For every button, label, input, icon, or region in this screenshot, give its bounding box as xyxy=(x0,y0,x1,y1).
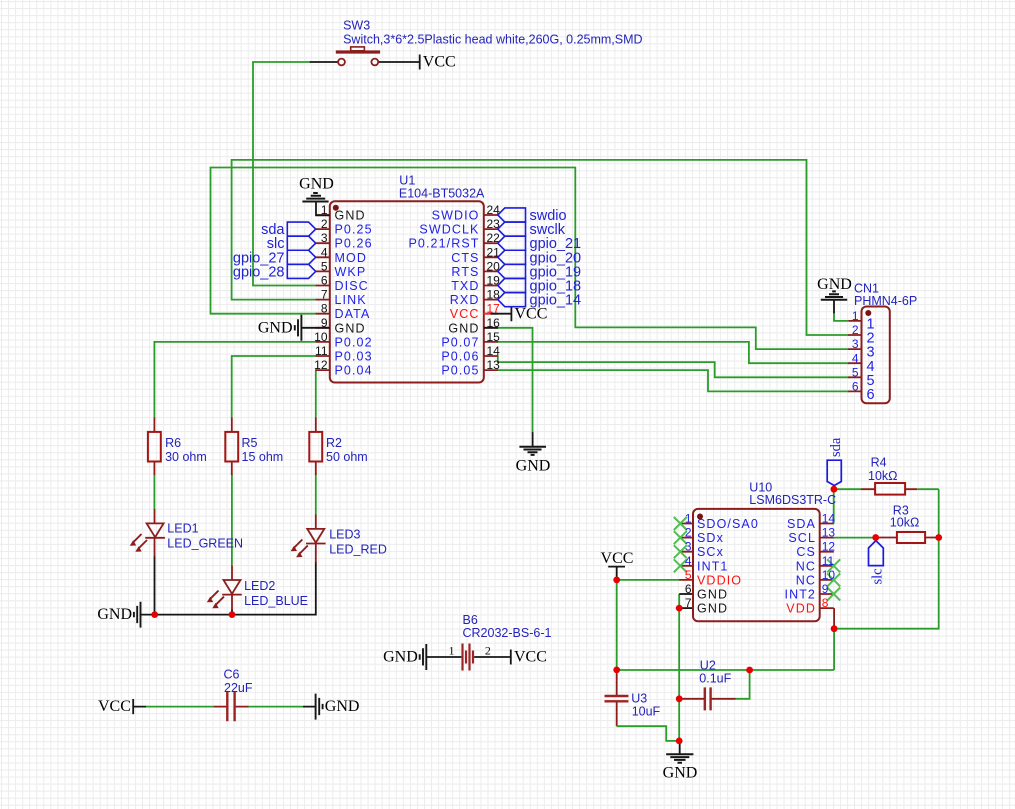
wire sda dot down to U10 pin14 SDA xyxy=(833,485,835,524)
svg-text:SDA: SDA xyxy=(787,517,816,531)
svg-text:3: 3 xyxy=(852,337,859,351)
svg-text:14: 14 xyxy=(487,344,501,358)
svg-text:6: 6 xyxy=(321,274,328,288)
svg-text:LED_GREEN: LED_GREEN xyxy=(167,537,243,551)
wire R6 to LED1 xyxy=(153,475,155,509)
svg-text:SCx: SCx xyxy=(697,545,724,559)
ground (earth) below U10 xyxy=(663,741,698,782)
svg-text:13: 13 xyxy=(487,358,501,372)
junction dot VDD xyxy=(831,625,838,632)
wire U3 top to VCC dot (dark red) xyxy=(616,670,618,696)
svg-text:SCL: SCL xyxy=(788,531,816,545)
svg-text:VCC: VCC xyxy=(601,550,634,567)
CN1 pin-1 marker dot xyxy=(865,310,871,316)
svg-text:R5: R5 xyxy=(242,436,258,450)
svg-text:VCC: VCC xyxy=(98,698,131,715)
svg-text:3: 3 xyxy=(321,231,328,245)
svg-text:P0.21/RST: P0.21/RST xyxy=(408,237,479,251)
svg-text:sda: sda xyxy=(828,437,844,457)
svg-text:GND: GND xyxy=(383,649,418,666)
svg-text:P0.02: P0.02 xyxy=(335,335,373,349)
IC U10 LSM6DS3TR-C body xyxy=(693,509,820,621)
svg-text:15 ohm: 15 ohm xyxy=(242,450,284,464)
svg-text:GND: GND xyxy=(448,321,479,335)
junction dot slc xyxy=(872,534,879,541)
svg-text:5: 5 xyxy=(321,259,328,273)
svg-text:2: 2 xyxy=(485,644,491,658)
svg-text:GND: GND xyxy=(97,606,132,623)
svg-text:11: 11 xyxy=(822,554,835,568)
svg-text:LSM6DS3TR-C: LSM6DS3TR-C xyxy=(749,493,836,507)
wire U2 right plate to VCC rail xyxy=(712,698,736,700)
svg-text:GND: GND xyxy=(817,276,852,293)
wire VDD dot right and up to R3/R4 xyxy=(834,489,939,629)
svg-text:LED1: LED1 xyxy=(167,522,198,536)
svg-text:VCC: VCC xyxy=(423,54,456,71)
svg-text:P0.06: P0.06 xyxy=(441,350,479,364)
wire U10 pin6 GND (black) xyxy=(679,593,693,595)
wire R2 to LED3 xyxy=(315,475,317,515)
svg-text:gpio_28: gpio_28 xyxy=(233,264,285,280)
svg-text:GND: GND xyxy=(258,319,293,336)
wire U1 pin15 P0.07 to CN1 pin4 xyxy=(498,342,848,363)
svg-text:gpio_14: gpio_14 xyxy=(530,293,582,309)
U10 left pin numbers xyxy=(685,512,692,611)
U10 no-connect X pin3 xyxy=(674,545,687,558)
svg-text:NC: NC xyxy=(796,559,816,573)
svg-text:WKP: WKP xyxy=(335,265,367,279)
U10 left pin names xyxy=(697,517,759,616)
ground (earth) below U1 (pin16 net) xyxy=(516,432,551,474)
U1 left pin numbers 1-12 xyxy=(314,203,328,372)
U10 pin-1 marker dot xyxy=(697,514,703,520)
wire U10 pin7 GND (black) xyxy=(679,607,693,609)
op-amp U1 E104-BT5032A body xyxy=(330,201,484,382)
net port sda (above R4) xyxy=(827,437,844,485)
svg-text:LINK: LINK xyxy=(335,293,367,307)
U1 left pin names xyxy=(335,209,373,378)
net labels right of U1 xyxy=(530,208,582,309)
svg-text:DISC: DISC xyxy=(335,279,369,293)
CN1 outside pin numbers xyxy=(852,309,859,394)
ground (power port) at B6 xyxy=(383,644,426,670)
U1 pin-1 marker dot xyxy=(333,205,339,211)
wire U1 pin12 P0.04 to R2 xyxy=(315,370,317,418)
resistor R6 xyxy=(148,418,207,475)
net port slc (below R3) xyxy=(869,541,886,585)
svg-text:1: 1 xyxy=(685,512,692,526)
junction dot VCC/pin5 xyxy=(613,577,620,584)
junction dot sda xyxy=(831,486,838,493)
svg-text:7: 7 xyxy=(321,288,328,302)
svg-text:2: 2 xyxy=(852,323,859,337)
svg-text:12: 12 xyxy=(314,358,328,372)
wire U1 pin10 P0.02 to R6 xyxy=(154,342,315,418)
ground (earth) at U1 pin1 xyxy=(299,176,334,216)
svg-text:8: 8 xyxy=(822,596,829,610)
capacitor U3 10uF xyxy=(605,692,661,719)
svg-text:6: 6 xyxy=(685,582,692,596)
svg-text:VCC: VCC xyxy=(450,307,480,321)
wire U1 pin8 DATA to CN1 pin3 xyxy=(211,168,849,350)
svg-text:LED2: LED2 xyxy=(244,579,275,593)
CN1 pin stubs xyxy=(848,321,861,392)
svg-text:LED3: LED3 xyxy=(329,528,360,542)
svg-text:8: 8 xyxy=(321,302,328,316)
U10 no-connect X pin1 xyxy=(674,517,687,530)
svg-text:12: 12 xyxy=(822,540,836,554)
svg-text:E104-BT5032A: E104-BT5032A xyxy=(399,187,485,201)
svg-text:CR2032-BS-6-1: CR2032-BS-6-1 xyxy=(463,626,552,640)
svg-text:INT1: INT1 xyxy=(697,559,729,573)
net flag gpio_27 (U1 pin4) xyxy=(287,250,315,264)
svg-text:SWDIO: SWDIO xyxy=(432,209,480,223)
svg-text:2: 2 xyxy=(321,217,328,231)
svg-text:10kΩ: 10kΩ xyxy=(868,469,898,483)
svg-text:P0.07: P0.07 xyxy=(441,335,479,349)
svg-text:TXD: TXD xyxy=(451,279,479,293)
junction dot LED1 xyxy=(151,611,158,618)
resistor R4 xyxy=(861,456,939,495)
U10 no-connect X pin4 xyxy=(674,559,687,572)
svg-text:P0.05: P0.05 xyxy=(441,364,479,378)
battery B6 CR2032-BS-6-1 xyxy=(426,613,551,671)
svg-text:P0.26: P0.26 xyxy=(335,237,373,251)
VCC flag at SW3 xyxy=(420,54,456,71)
VCC flag at B6 xyxy=(511,649,547,666)
CN1 inside pin numbers xyxy=(867,317,875,404)
ground (power port) at C6 (right, mirrored) xyxy=(316,694,360,720)
svg-text:R6: R6 xyxy=(165,436,181,450)
wire R5 to LED2 xyxy=(231,475,233,566)
svg-text:4: 4 xyxy=(852,351,859,365)
net flag swdio (U1 pin24) xyxy=(498,208,526,222)
net flag gpio_28 (U1 pin5) xyxy=(287,264,315,278)
VCC flag at U1 pin17 xyxy=(484,305,548,328)
svg-text:6: 6 xyxy=(867,387,875,403)
wire U10 pin13 SCL to slc dot and R3 xyxy=(834,537,876,539)
junction dot U2 right xyxy=(746,667,753,674)
LED1 LED_GREEN xyxy=(133,509,165,557)
junction dot U2 left xyxy=(676,695,683,702)
resistor R2 xyxy=(309,418,367,475)
net flag swclk (U1 pin23) xyxy=(498,222,526,236)
svg-text:7: 7 xyxy=(685,596,692,610)
U1 right pin names xyxy=(408,209,479,378)
svg-text:VCC: VCC xyxy=(514,649,547,666)
wire LED cathodes to GND rail (black) xyxy=(141,557,316,615)
svg-text:LED_RED: LED_RED xyxy=(329,543,387,557)
svg-text:SW3: SW3 xyxy=(343,19,370,33)
net flag sda (U1 pin2) xyxy=(287,222,315,236)
junction dot GND pin7 xyxy=(676,605,683,612)
svg-text:5: 5 xyxy=(852,365,859,379)
svg-text:P0.03: P0.03 xyxy=(335,350,373,364)
wire U1 pin11 P0.03 to R5 xyxy=(232,356,316,418)
svg-text:C6: C6 xyxy=(224,668,240,682)
svg-text:B6: B6 xyxy=(463,613,478,627)
svg-text:RTS: RTS xyxy=(451,265,479,279)
ground (earth) at CN1 pin1 xyxy=(817,276,852,321)
wire U1 pin14 P0.06 to CN1 pin5 xyxy=(498,356,848,377)
svg-text:GND: GND xyxy=(516,458,551,475)
svg-text:1: 1 xyxy=(449,644,455,658)
junction dot VCC rail left xyxy=(613,667,620,674)
svg-text:SDO/SA0: SDO/SA0 xyxy=(697,517,759,531)
U10 no-connect X pin11 xyxy=(827,559,840,572)
net flag slc (U1 pin3) xyxy=(287,236,315,250)
svg-text:slc: slc xyxy=(869,568,885,584)
wire sda dot to R4 left xyxy=(834,488,861,490)
svg-text:5: 5 xyxy=(685,568,692,582)
svg-text:10: 10 xyxy=(314,330,328,344)
wire U2 left plate to GND vertical (dark red) xyxy=(679,698,704,700)
svg-text:0.1uF: 0.1uF xyxy=(699,672,731,686)
U1 left pin stubs xyxy=(316,215,330,370)
wire U1 pin7 LINK to CN1 pin2 xyxy=(232,160,849,335)
svg-text:GND: GND xyxy=(299,176,334,193)
wire SW3 to U1 pin6 DISC (net DISC) xyxy=(253,62,316,286)
net flag gpio_20 (U1 pin21) xyxy=(498,250,526,264)
junction dot LED2 xyxy=(229,611,236,618)
svg-text:CTS: CTS xyxy=(451,251,479,265)
wire U1 pin16 GND to ground symbol xyxy=(498,328,533,432)
svg-text:DATA: DATA xyxy=(335,307,371,321)
VCC flag (vertical) at U10 xyxy=(601,550,634,580)
wire VDD dot to pin8 (dark red) xyxy=(833,608,835,629)
wire VCC rail down and right to VDD vertical xyxy=(617,580,834,670)
junction dot GND bottom xyxy=(676,738,683,745)
svg-text:U2: U2 xyxy=(700,659,716,673)
net flag gpio_19 (U1 pin20) xyxy=(498,264,526,278)
svg-text:10uF: 10uF xyxy=(632,705,661,719)
svg-text:6: 6 xyxy=(852,380,859,394)
svg-text:Switch,3*6*2.5Plastic head whi: Switch,3*6*2.5Plastic head white,260G, 0… xyxy=(343,33,642,47)
capacitor U2 0.1uF xyxy=(699,659,731,711)
U1 right pin stubs xyxy=(484,215,498,370)
U10 no-connect X pin10 xyxy=(827,573,840,586)
svg-text:10kΩ: 10kΩ xyxy=(890,516,920,530)
resistor R5 xyxy=(225,418,283,475)
svg-text:GND: GND xyxy=(335,321,366,335)
capacitor C6 22uF xyxy=(133,668,315,722)
svg-text:NC: NC xyxy=(796,573,816,587)
net flag gpio_14 (U1 pin18) xyxy=(498,293,526,307)
svg-text:VDDIO: VDDIO xyxy=(697,573,742,587)
svg-text:GND: GND xyxy=(335,209,366,223)
svg-text:GND: GND xyxy=(325,698,360,715)
svg-text:15: 15 xyxy=(487,330,501,344)
svg-text:R2: R2 xyxy=(326,436,342,450)
U10 left pin stubs xyxy=(679,524,693,580)
U10 no-connect X pin2 xyxy=(674,531,687,544)
svg-text:SWDCLK: SWDCLK xyxy=(419,223,479,237)
svg-text:11: 11 xyxy=(315,344,328,358)
svg-text:INT2: INT2 xyxy=(785,588,817,602)
svg-text:50 ohm: 50 ohm xyxy=(326,450,368,464)
svg-text:SDx: SDx xyxy=(697,531,724,545)
U10 right pin names xyxy=(785,517,817,616)
svg-text:MOD: MOD xyxy=(335,251,367,265)
svg-text:4: 4 xyxy=(321,245,328,259)
svg-text:VDD: VDD xyxy=(786,602,816,616)
switch SW3 xyxy=(310,19,643,66)
net flag gpio_18 (U1 pin19) xyxy=(498,278,526,292)
U1 right pin numbers 24-13 xyxy=(487,203,501,372)
svg-text:1: 1 xyxy=(852,309,859,323)
junction dot R3 right xyxy=(935,534,942,541)
svg-text:U3: U3 xyxy=(631,692,647,706)
svg-text:30 ohm: 30 ohm xyxy=(165,450,207,464)
ground (power port) at U1 pin9 xyxy=(258,315,330,341)
wire VCC flag to U10 pin5 VDDIO xyxy=(617,579,680,581)
U10 right pin numbers xyxy=(822,512,836,611)
LED2 LED_BLUE xyxy=(210,566,242,610)
svg-text:RXD: RXD xyxy=(450,293,480,307)
svg-text:P0.25: P0.25 xyxy=(335,223,373,237)
svg-text:CS: CS xyxy=(796,545,816,559)
svg-text:10: 10 xyxy=(822,568,836,582)
svg-text:R4: R4 xyxy=(871,456,887,470)
svg-text:14: 14 xyxy=(822,512,836,526)
ground (power port) at LED rail xyxy=(97,602,140,628)
wire U10 GND pins 6,7 down (green) xyxy=(678,594,680,741)
svg-text:4: 4 xyxy=(685,554,692,568)
net flag gpio_21 (U1 pin22) xyxy=(498,236,526,250)
svg-text:P0.04: P0.04 xyxy=(335,364,373,378)
VCC flag at C6 (left, mirrored) xyxy=(98,698,133,715)
svg-text:PHMN4-6P: PHMN4-6P xyxy=(854,294,917,308)
U10 right pin stubs xyxy=(820,524,834,609)
U10 no-connect X pin9 xyxy=(827,588,840,601)
svg-text:GND: GND xyxy=(697,588,728,602)
resistor R3 xyxy=(879,504,939,544)
svg-text:GND: GND xyxy=(697,602,728,616)
net labels left of U1 xyxy=(233,222,286,280)
svg-text:U1: U1 xyxy=(399,174,415,188)
wire U1 pin13 P0.05 to CN1 pin6 xyxy=(498,370,848,391)
svg-text:LED_BLUE: LED_BLUE xyxy=(244,594,308,608)
svg-text:3: 3 xyxy=(685,540,692,554)
connector CN1 PHMN4-6P body xyxy=(862,307,890,404)
svg-text:GND: GND xyxy=(663,765,698,782)
svg-text:9: 9 xyxy=(822,582,829,596)
wire U3 bottom to GND dot xyxy=(616,701,618,726)
svg-text:13: 13 xyxy=(822,526,836,540)
LED3 LED_RED xyxy=(293,515,325,563)
svg-text:2: 2 xyxy=(685,526,692,540)
